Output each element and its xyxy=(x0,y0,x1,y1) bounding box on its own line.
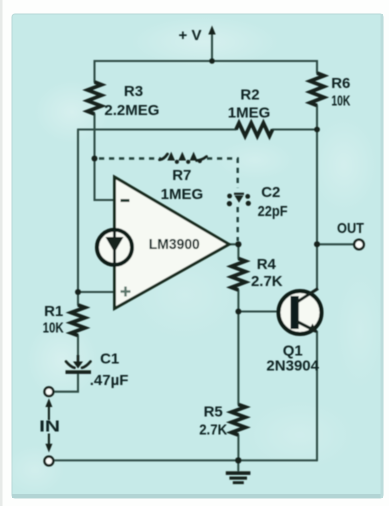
svg-text:2.7K: 2.7K xyxy=(251,273,283,290)
svg-text:10K: 10K xyxy=(331,93,350,110)
svg-text:22pF: 22pF xyxy=(258,203,288,220)
svg-text:2.7K: 2.7K xyxy=(199,421,227,438)
svg-text:R4: R4 xyxy=(257,256,277,273)
svg-text:R7: R7 xyxy=(172,167,191,184)
svg-text:1MEG: 1MEG xyxy=(161,186,204,203)
svg-text:2.2MEG: 2.2MEG xyxy=(104,102,159,119)
svg-text:+ V: + V xyxy=(179,27,202,44)
svg-text:1MEG: 1MEG xyxy=(228,104,271,121)
svg-text:.47µF: .47µF xyxy=(90,372,129,389)
svg-text:2N3904: 2N3904 xyxy=(266,358,319,375)
svg-text:C2: C2 xyxy=(261,184,280,201)
svg-text:R5: R5 xyxy=(204,403,223,420)
svg-text:R2: R2 xyxy=(240,87,259,104)
svg-text:R6: R6 xyxy=(331,75,350,92)
svg-text:LM3900: LM3900 xyxy=(149,236,200,253)
svg-text:R3: R3 xyxy=(124,83,143,100)
svg-text:IN: IN xyxy=(39,419,60,436)
svg-text:C1: C1 xyxy=(100,351,119,368)
svg-text:R1: R1 xyxy=(44,303,63,320)
svg-text:OUT: OUT xyxy=(337,220,364,237)
svg-text:10K: 10K xyxy=(43,320,64,337)
